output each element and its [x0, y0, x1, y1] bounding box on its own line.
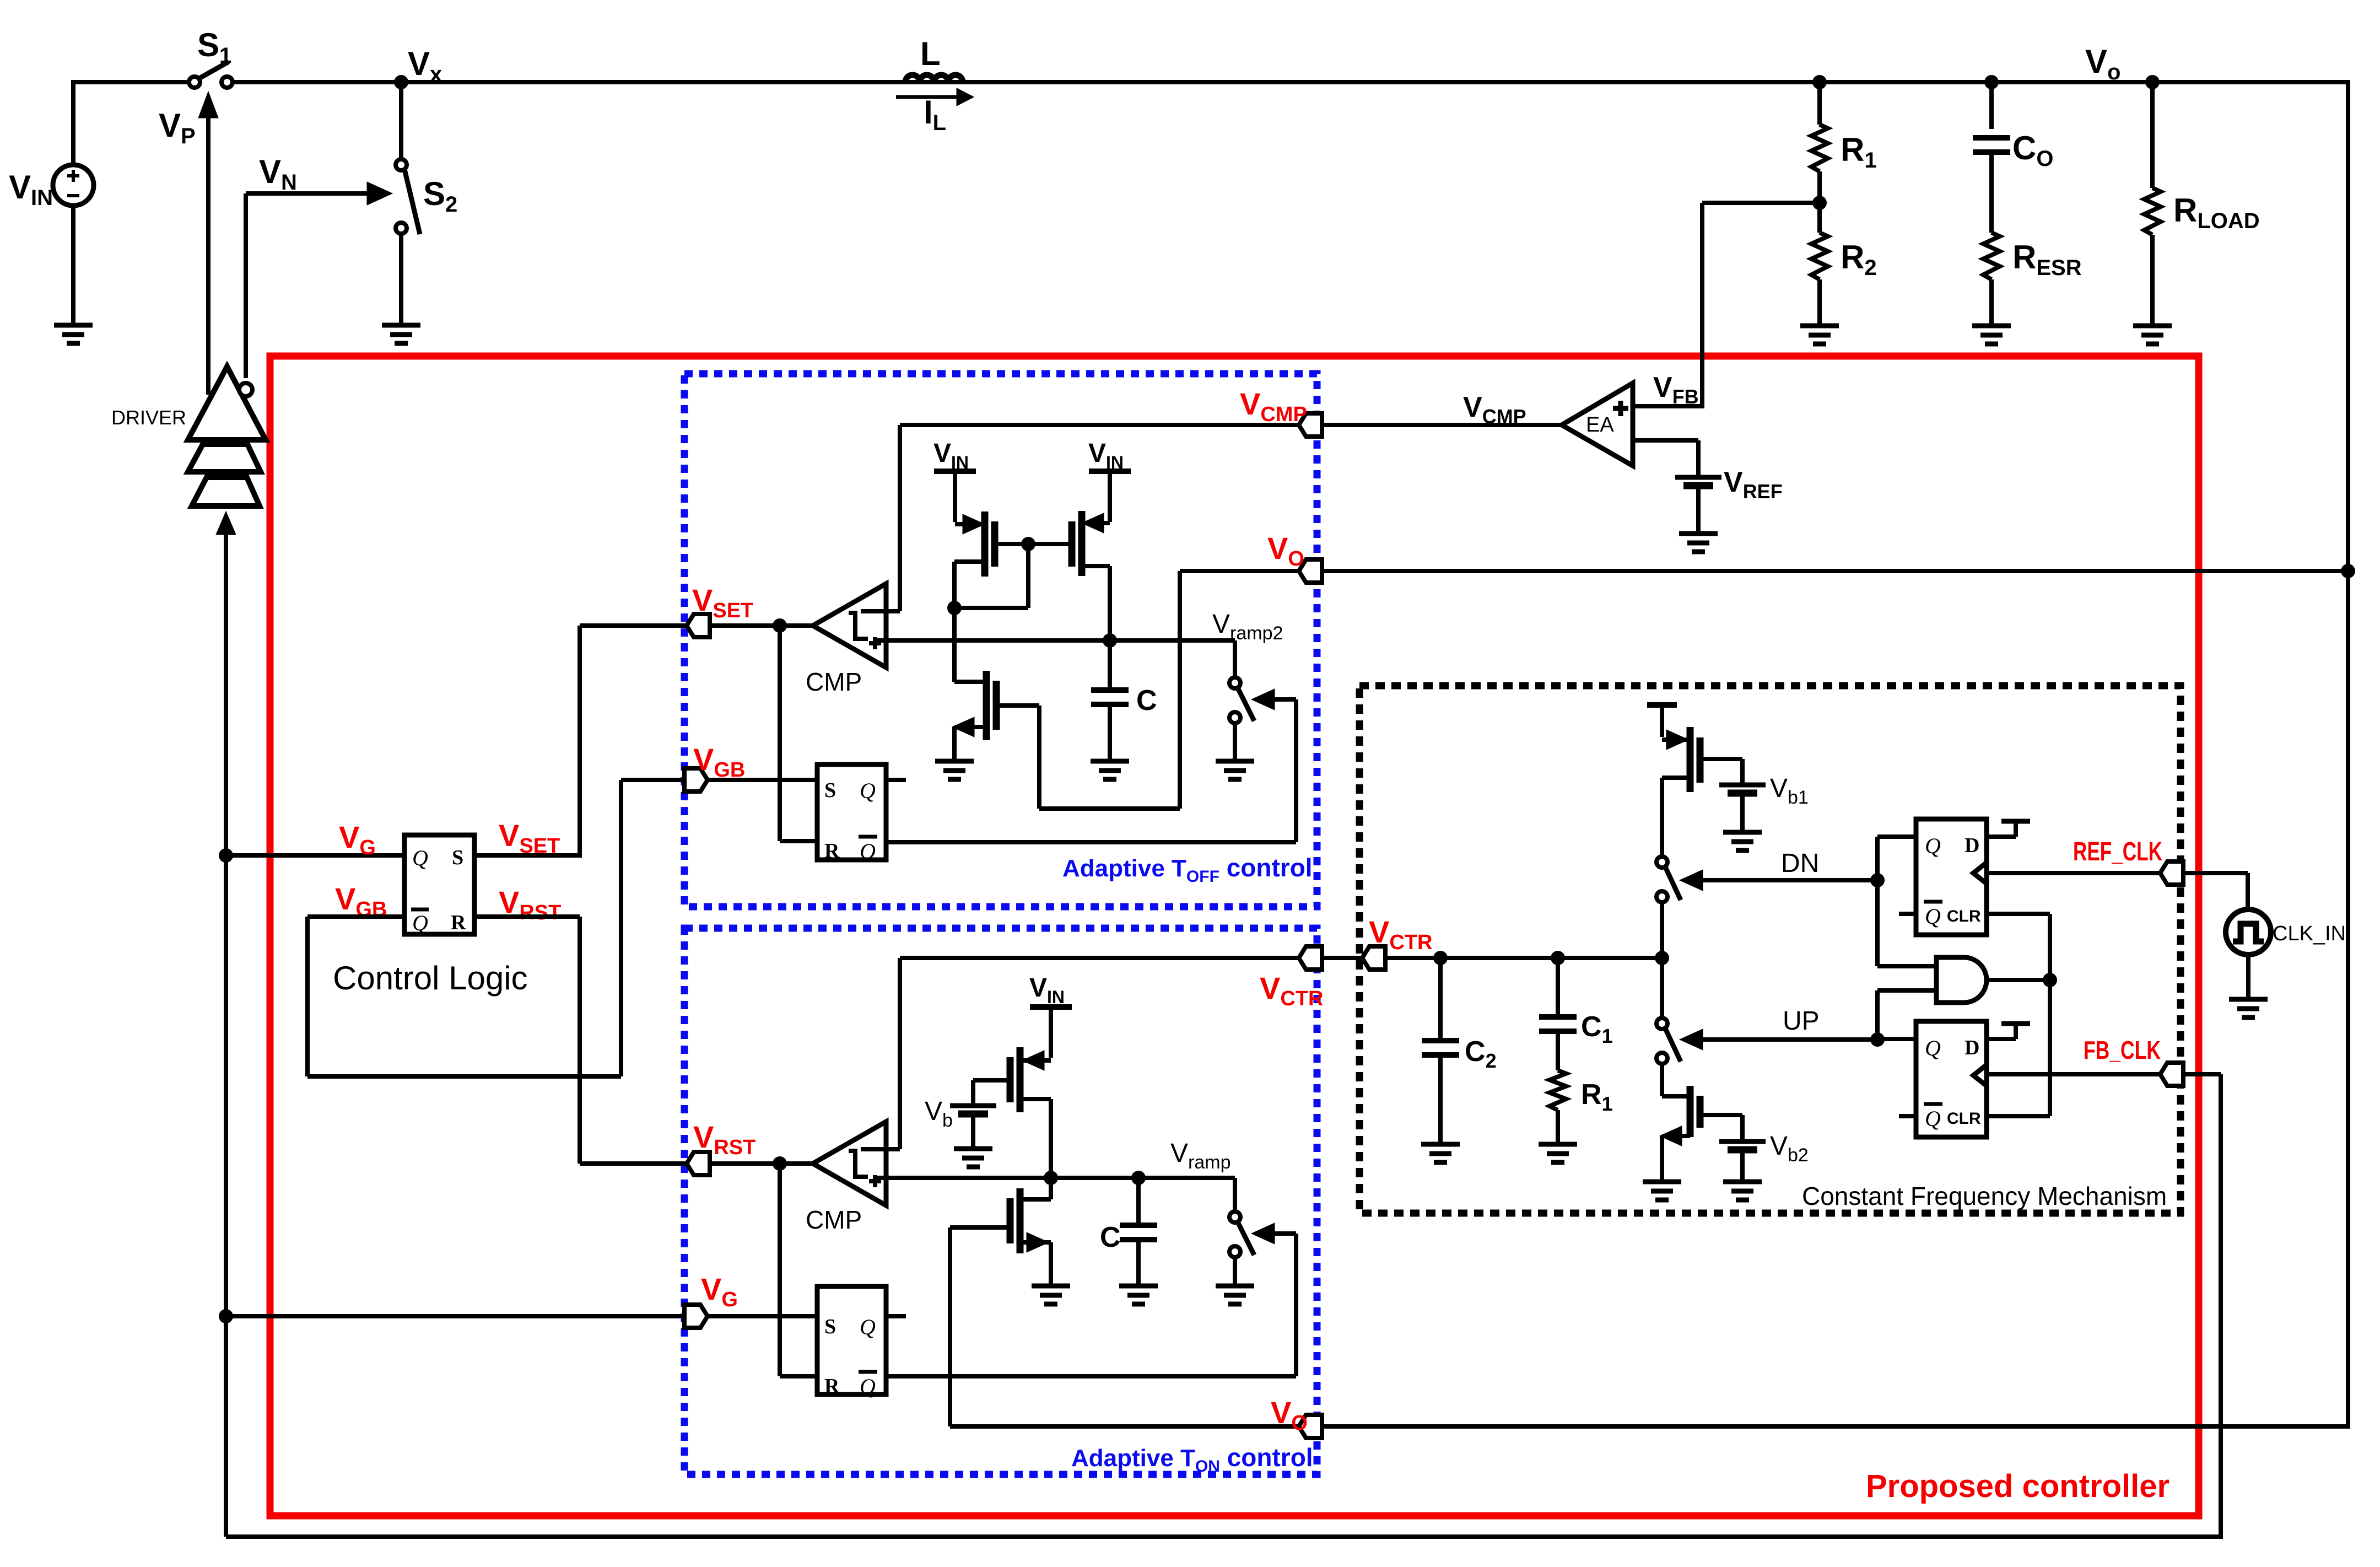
- svg-text:S: S: [824, 779, 836, 802]
- battery Vb2: [1719, 1139, 1766, 1144]
- D flip-flop FB: [1916, 1021, 1987, 1137]
- AND gate: [1936, 957, 1987, 1003]
- port VG (TON): [684, 1305, 708, 1328]
- node C1: [1551, 951, 1565, 965]
- wire VGB port to latch S: [708, 778, 817, 782]
- node UP junction: [1870, 1032, 1885, 1047]
- svg-text:Q: Q: [860, 1374, 876, 1399]
- wire VN driver to S2: [244, 193, 248, 378]
- node VSET: [773, 618, 787, 633]
- port FB_CLK: [2160, 1063, 2183, 1086]
- ground: [1539, 1142, 1577, 1147]
- node FB tap: [1812, 196, 1827, 210]
- wire FB tap to EA: [1702, 201, 1820, 205]
- plus glyph EA: [1613, 406, 1628, 411]
- wire D tie-high lower DFF: [1987, 1037, 2016, 1041]
- node Vramp2 cap: [1103, 633, 1117, 648]
- ground: [1216, 1284, 1254, 1289]
- svg-text:Constant Frequency Mechanism: Constant Frequency Mechanism: [1802, 1182, 2167, 1210]
- ground: [1800, 324, 1839, 329]
- transistor NMOS discharge (CFM): [1687, 1086, 1694, 1137]
- node C2: [1433, 951, 1448, 965]
- capacitor C (TON): [1136, 1178, 1141, 1225]
- port VGB: [684, 768, 708, 791]
- wire VG port to latch S (TON): [708, 1314, 817, 1318]
- wire VG bottom to FB_CLK: [226, 1534, 2221, 1539]
- wire VRST to latch R (TON): [778, 1164, 782, 1376]
- transistor PMOS mirror out (TOFF): [1082, 513, 1104, 533]
- comparator CMP (TOFF): [813, 584, 886, 667]
- transistor NMOS switch (TON): [1049, 1178, 1053, 1199]
- wire S1 to Vx: [233, 80, 2348, 84]
- supply VIN (TON): [1030, 1004, 1072, 1010]
- port Vo (TON): [1299, 1415, 1322, 1438]
- switch ramp2 reset: [1233, 640, 1237, 677]
- svg-text:Q: Q: [412, 911, 428, 935]
- wire S2 to ground: [399, 234, 403, 325]
- svg-text:R: R: [824, 839, 840, 863]
- wire Q lower DFF: [1877, 1037, 1916, 1041]
- ground: [1643, 1180, 1681, 1184]
- switch UP: [1660, 958, 1664, 1018]
- port VSET: [687, 614, 710, 637]
- clock source CLK_IN: [2246, 873, 2250, 911]
- svg-text:EA: EA: [1586, 413, 1614, 437]
- battery Vb: [950, 1103, 996, 1108]
- capacitor C2: [1438, 958, 1443, 1041]
- port REF_CLK: [2160, 861, 2183, 885]
- wire VSET to latch R (TOFF): [778, 626, 782, 841]
- node DN junction: [1870, 873, 1885, 887]
- op-amp EA: [1562, 383, 1633, 466]
- wire Vo feedback bottom to TON block: [1322, 1424, 2348, 1429]
- ground: [1216, 759, 1254, 764]
- svg-text:R: R: [451, 911, 466, 934]
- wire gate mirror: [995, 542, 1072, 546]
- svg-text:C: C: [1136, 685, 1157, 717]
- node VG branch: [219, 848, 233, 863]
- capacitor C (TOFF): [1108, 640, 1112, 690]
- ground: [1679, 531, 1718, 536]
- wire CLR upper DFF: [1987, 912, 2050, 916]
- switch S2: [399, 85, 403, 159]
- wire Vramp: [873, 1176, 1235, 1180]
- wire VIN to S1: [71, 80, 75, 165]
- port VRST (TON): [687, 1152, 710, 1175]
- node Vramp cap: [1131, 1171, 1146, 1185]
- port VCMP: [1299, 413, 1322, 437]
- wire VGB Qbar routing: [307, 914, 404, 919]
- svg-text:R: R: [824, 1375, 840, 1398]
- node Vo to TOFF: [2341, 564, 2355, 578]
- transistor NMOS discharge (TOFF): [952, 640, 957, 682]
- svg-text:CLK_IN: CLK_IN: [2273, 922, 2346, 945]
- capacitor C1: [1556, 958, 1560, 1017]
- ground: [935, 759, 974, 764]
- svg-text:DN: DN: [1781, 849, 1819, 878]
- node VG branch2: [219, 1309, 233, 1323]
- supply bar (CFM top): [1647, 702, 1677, 708]
- ground: [2133, 324, 2172, 329]
- driver inverter bubble: [239, 383, 252, 396]
- arrow VG into driver: [224, 532, 228, 1537]
- switch DN: [1656, 857, 1667, 868]
- wire VSET port to CMP: [710, 623, 813, 628]
- transistor PMOS diode-connected (TOFF): [963, 514, 985, 534]
- node gate mirror: [1021, 537, 1035, 551]
- wire D tie-high upper DFF: [1987, 834, 2016, 839]
- driver buffer triangles: [188, 367, 266, 440]
- wire Vo into TON: [950, 1424, 1299, 1429]
- inductor L: [905, 75, 963, 82]
- arrow IL: [896, 95, 959, 99]
- svg-text:FB_CLK: FB_CLK: [2084, 1036, 2161, 1064]
- svg-text:Q: Q: [1925, 833, 1941, 858]
- latch SR (TON): [817, 1286, 886, 1394]
- ground: [1723, 830, 1762, 835]
- ground: [1091, 759, 1129, 764]
- svg-text:Q: Q: [412, 846, 428, 870]
- stub Qbar upper DFF: [1899, 912, 1916, 916]
- wire REF_CLK: [1987, 871, 2248, 875]
- ground below VIN: [71, 206, 75, 325]
- resistor R1 (CFM): [1550, 1070, 1566, 1110]
- stub Qbar lower DFF: [1899, 1114, 1916, 1118]
- svg-text:Control Logic: Control Logic: [333, 960, 528, 997]
- wire EA minus to VREF: [1633, 438, 1698, 443]
- port Vo (TOFF): [1299, 559, 1322, 583]
- wire Vramp2: [873, 638, 1235, 643]
- svg-text:DRIVER: DRIVER: [111, 406, 186, 429]
- port VCTR (CFM): [1362, 946, 1385, 970]
- wire AND output to CLR: [1988, 978, 2050, 982]
- wire VG to latch Q: [226, 853, 404, 858]
- svg-text:UP: UP: [1783, 1006, 1820, 1036]
- node diode link: [947, 601, 962, 615]
- resistor R2: [1817, 203, 1822, 233]
- wire Vo feedback to TOFF block: [1322, 569, 2348, 573]
- svg-text:D: D: [1965, 834, 1979, 857]
- node Vx: [394, 75, 408, 89]
- latch Q stub (TOFF): [886, 778, 906, 782]
- svg-text:Proposed controller: Proposed controller: [1866, 1468, 2169, 1504]
- capacitor Co: [1989, 82, 1994, 129]
- arrow VP driver to S1: [206, 117, 211, 395]
- ground: [1032, 1284, 1070, 1289]
- wire Vo to NMOS gate (TOFF): [1178, 571, 1182, 809]
- resistor RESR: [1983, 233, 2000, 279]
- switch S1: [189, 77, 200, 88]
- wire CLR lower DFF: [1987, 1114, 2050, 1118]
- wire Q upper DFF: [1877, 834, 1916, 839]
- svg-text:Q: Q: [1925, 1036, 1941, 1060]
- Adaptive TOFF control blue dashed box: [684, 374, 1317, 907]
- node Vramp pmos: [1044, 1171, 1058, 1185]
- latch control-logic box: [404, 835, 474, 934]
- ground: [54, 323, 93, 328]
- svg-text:Q: Q: [860, 1315, 876, 1339]
- svg-text:S: S: [824, 1315, 836, 1338]
- svg-text:D: D: [1965, 1036, 1979, 1059]
- svg-text:Q: Q: [860, 839, 876, 864]
- svg-text:Q: Q: [1925, 1106, 1941, 1131]
- transistor PMOS current source (TON): [1022, 1051, 1044, 1070]
- svg-text:L: L: [920, 35, 941, 72]
- resistor RLOAD: [2150, 82, 2155, 188]
- ground: [2229, 997, 2268, 1002]
- wire DN: [1703, 878, 1877, 882]
- ground: [1723, 1180, 1762, 1184]
- switch ramp reset (TON): [1233, 1178, 1237, 1211]
- wire VRST latch R down: [474, 914, 580, 919]
- node VRST: [773, 1156, 787, 1171]
- battery VREF: [1675, 475, 1721, 480]
- Constant Frequency Mechanism black dashed box: [1359, 686, 2181, 1213]
- latch SR (TOFF): [817, 764, 886, 860]
- node Vo junction R1: [1812, 75, 1827, 89]
- svg-text:CLR: CLR: [1947, 1110, 1981, 1128]
- node charge pump: [1655, 951, 1669, 965]
- svg-text:CMP: CMP: [806, 1205, 862, 1234]
- svg-text:Q: Q: [1925, 904, 1941, 929]
- wire FB_CLK: [1987, 1072, 2221, 1076]
- voltage source VIN: [53, 165, 94, 206]
- proposed controller red box: [270, 356, 2199, 1516]
- supply VIN left (TOFF): [934, 469, 976, 474]
- wire VCTR into TON: [900, 956, 1299, 960]
- ground: [1421, 1142, 1460, 1147]
- svg-text:Q: Q: [860, 778, 876, 803]
- svg-text:CMP: CMP: [806, 667, 862, 696]
- latch Q stub (TON): [886, 1314, 906, 1318]
- svg-text:Adaptive TON control: Adaptive TON control: [1071, 1443, 1313, 1476]
- node CLR junction: [2043, 973, 2057, 987]
- D flip-flop REF: [1916, 819, 1987, 935]
- wire VCMP EA to TOFF: [1299, 423, 1562, 427]
- wire VSET S to port: [474, 853, 580, 858]
- svg-text:S: S: [452, 846, 463, 869]
- wire VCTR into CFM: [1322, 956, 1663, 960]
- ground: [1119, 1284, 1158, 1289]
- wire VCMP into TOFF: [900, 423, 1299, 427]
- wire UP: [1703, 1037, 1877, 1042]
- supply VIN right (TOFF): [1089, 469, 1131, 474]
- ground: [954, 1146, 992, 1151]
- wire FB_CLK down to VG bus: [2219, 1074, 2223, 1539]
- port VCTR (TON): [1299, 946, 1322, 970]
- svg-text:CLR: CLR: [1947, 907, 1981, 925]
- ground: [382, 323, 420, 328]
- ground: [1972, 324, 2011, 329]
- Adaptive TON control blue dashed box: [684, 928, 1317, 1474]
- svg-text:C: C: [1100, 1221, 1121, 1253]
- transistor PMOS charge (CFM): [1666, 730, 1688, 750]
- node Vo junction Rload: [2145, 75, 2160, 89]
- node Vo junction Co: [1984, 75, 1999, 89]
- battery Vb1: [1719, 783, 1766, 788]
- resistor R1: [1817, 82, 1822, 125]
- svg-text:REF_CLK: REF_CLK: [2073, 837, 2162, 866]
- wire VRST port to CMP: [710, 1161, 813, 1166]
- comparator CMP (TON): [813, 1122, 886, 1205]
- wire Vo right edge down: [2346, 80, 2350, 1429]
